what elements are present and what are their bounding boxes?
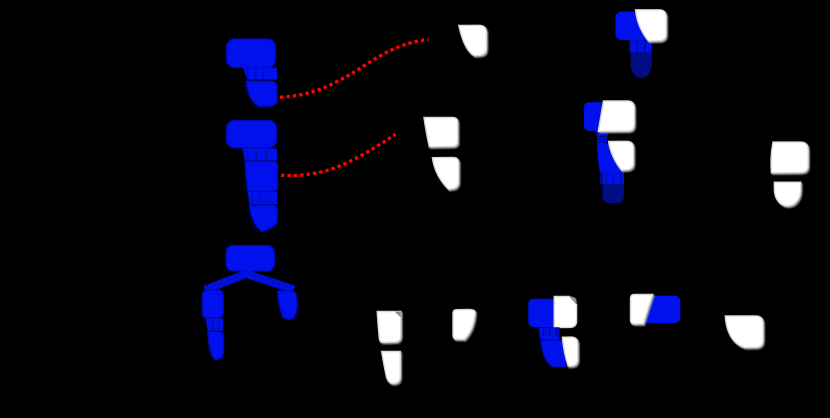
T2 segment1 <box>243 149 278 161</box>
R4 upper piece <box>377 312 401 343</box>
T5 root upper <box>597 144 624 173</box>
T7 blue block <box>643 296 680 324</box>
T3 left root tip <box>208 332 224 360</box>
T1 root <box>246 81 277 107</box>
restoration R5 (bottom white veneer) <box>453 310 475 340</box>
T5 root apex <box>602 184 624 203</box>
tooth T2 (left incisor-like, blue) <box>227 121 278 232</box>
T4 crown (blue) <box>616 12 656 41</box>
T2 hatch dots <box>247 151 267 201</box>
T3 left root seg2 dots <box>212 321 220 330</box>
T2 crown <box>227 121 277 149</box>
T6 neck dots <box>543 329 558 336</box>
T1 neck <box>243 68 277 80</box>
T1 crown <box>227 39 276 68</box>
T4 root <box>631 53 652 78</box>
T5 white crown piece <box>598 101 634 131</box>
R4 shadow corner <box>395 312 401 318</box>
T3 crown <box>226 246 275 272</box>
T6 white crown shadow corner <box>570 296 577 304</box>
T3 left root seg2 <box>206 319 224 331</box>
red dashed curve 2 <box>281 134 396 175</box>
T7 white wedge <box>631 295 653 324</box>
red dashed curve 1 <box>280 40 429 98</box>
R3 lower piece <box>774 182 800 206</box>
T2 segment3 <box>248 192 278 204</box>
tooth T1 (top-left premolar, blue) <box>227 39 278 107</box>
T3 left root dotted contour <box>206 332 214 361</box>
T4 white partial crown <box>636 10 667 41</box>
T6 white root piece <box>562 337 577 366</box>
T6 root <box>541 340 566 367</box>
T5 crown (blue) <box>584 102 604 131</box>
T2 dotted root contour <box>247 206 260 233</box>
T1 dotted root contour <box>244 82 258 109</box>
T3 left root seg1 <box>202 290 223 318</box>
restoration R1 (top-middle white onlay) <box>459 25 487 56</box>
T5 screw threads <box>597 134 608 142</box>
R2 lower piece <box>432 158 458 190</box>
T6 crown (blue) <box>528 299 554 327</box>
T3 right root <box>277 291 297 319</box>
restoration R6 (bottom-right white crown) <box>725 316 763 348</box>
T5 screw neck <box>596 131 608 144</box>
T3 chevron texture <box>205 274 294 291</box>
T4 post neck (striped) <box>629 40 652 52</box>
T3 furcation chevron band <box>205 274 294 290</box>
T3 right root dotted contour <box>294 293 298 320</box>
T5 post stripes <box>600 173 624 185</box>
T1 hatch dots <box>247 69 265 79</box>
T6 white crown half <box>554 296 576 327</box>
T2 root tip <box>249 205 277 232</box>
T6 neck <box>539 328 559 340</box>
T5 white onlay piece <box>609 141 634 170</box>
T2 segment2 <box>245 161 278 191</box>
R4 lower piece <box>382 352 401 384</box>
R2 upper piece <box>424 118 458 147</box>
R3 upper piece <box>771 142 808 173</box>
